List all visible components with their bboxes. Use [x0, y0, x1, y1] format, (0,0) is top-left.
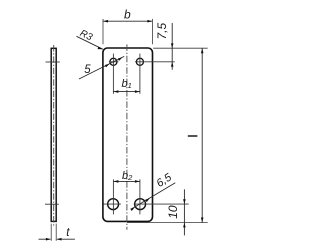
- dimension b1 line: [113, 91, 139, 93]
- dimension 10 arrow top: [183, 199, 186, 204]
- t extension line left: [50, 224, 52, 241]
- dimension l arrow bottom: [201, 218, 204, 223]
- bottom-right hole vertical centerline / b2 extension: [139, 179, 141, 214]
- leader 5 arrow at circle lower-left: [105, 64, 110, 68]
- leader 6,5 arrow at circle lower-left: [130, 207, 135, 211]
- leader 6,5 arrow at circle upper-right: [145, 198, 150, 202]
- bottom-right hole horizontal centerline / 10 extension: [134, 203, 189, 205]
- bottom-left hole horizontal centerline: [104, 203, 121, 205]
- top-right hole vertical centerline / b1 extension: [139, 54, 141, 94]
- svg-text:b: b: [124, 7, 131, 21]
- dimension 10 arrow bottom: [183, 223, 186, 228]
- top-left hole: [110, 58, 117, 65]
- dimension b arrow left: [103, 20, 108, 23]
- dimension b extension line left: [102, 19, 104, 44]
- dimension 10 line: [183, 189, 185, 235]
- dimension t arrow right: [57, 238, 62, 241]
- bottom-left hole vertical centerline / b2 extension: [112, 179, 114, 214]
- dimension 7.5 arrow bottom: [171, 62, 174, 67]
- leader R3 arrow at corner: [98, 47, 103, 50]
- dimension 7.5 arrow top: [171, 43, 174, 48]
- svg-text:7,5: 7,5: [155, 23, 169, 40]
- dimension l arrow top: [201, 48, 204, 53]
- side view centerline: [53, 45, 55, 227]
- dimension t line left segment: [39, 238, 51, 240]
- front view vertical centerline: [126, 44, 128, 229]
- bottom edge extension line (10 / l): [127, 222, 208, 224]
- front view plate outline: [103, 48, 153, 221]
- side view bottom hole level tick: [45, 203, 59, 205]
- dimension b1 arrow left: [114, 90, 119, 93]
- dimension b2 arrow right: [135, 180, 140, 183]
- dimension b1 arrow right: [135, 90, 140, 93]
- leader 5 arrow at circle upper-right: [118, 57, 123, 61]
- dimension b2 line: [113, 180, 139, 182]
- leader for hole diameter 6,5: [132, 183, 175, 209]
- bottom-right hole: [135, 199, 146, 210]
- top edge extension line (7.5 / l): [153, 47, 208, 49]
- dimension t line right segment: [57, 238, 75, 240]
- top-right hole horizontal centerline / 7.5 extension: [135, 61, 175, 63]
- dimension b line: [103, 20, 152, 22]
- dimension b extension line right: [151, 19, 153, 44]
- label l: [188, 135, 198, 137]
- bottom-left hole: [108, 199, 119, 210]
- leader for corner radius R3: [77, 36, 103, 49]
- top-left hole horizontal centerline: [109, 61, 119, 63]
- t extension line right: [55, 224, 57, 241]
- top-right hole: [136, 58, 143, 65]
- top-left hole vertical centerline / b1 extension: [112, 54, 114, 94]
- dimension b arrow right: [147, 20, 152, 23]
- side view strip outline: [51, 48, 56, 221]
- svg-text:5: 5: [84, 64, 91, 76]
- dimension t arrow left: [46, 238, 51, 241]
- svg-text:10: 10: [166, 205, 180, 219]
- dimension l line: [201, 48, 203, 222]
- side view top hole level tick: [46, 61, 60, 63]
- dimension 7.5 line: [171, 23, 173, 70]
- dimension b2 arrow left: [114, 180, 119, 183]
- leader for hole diameter 5: [79, 56, 124, 79]
